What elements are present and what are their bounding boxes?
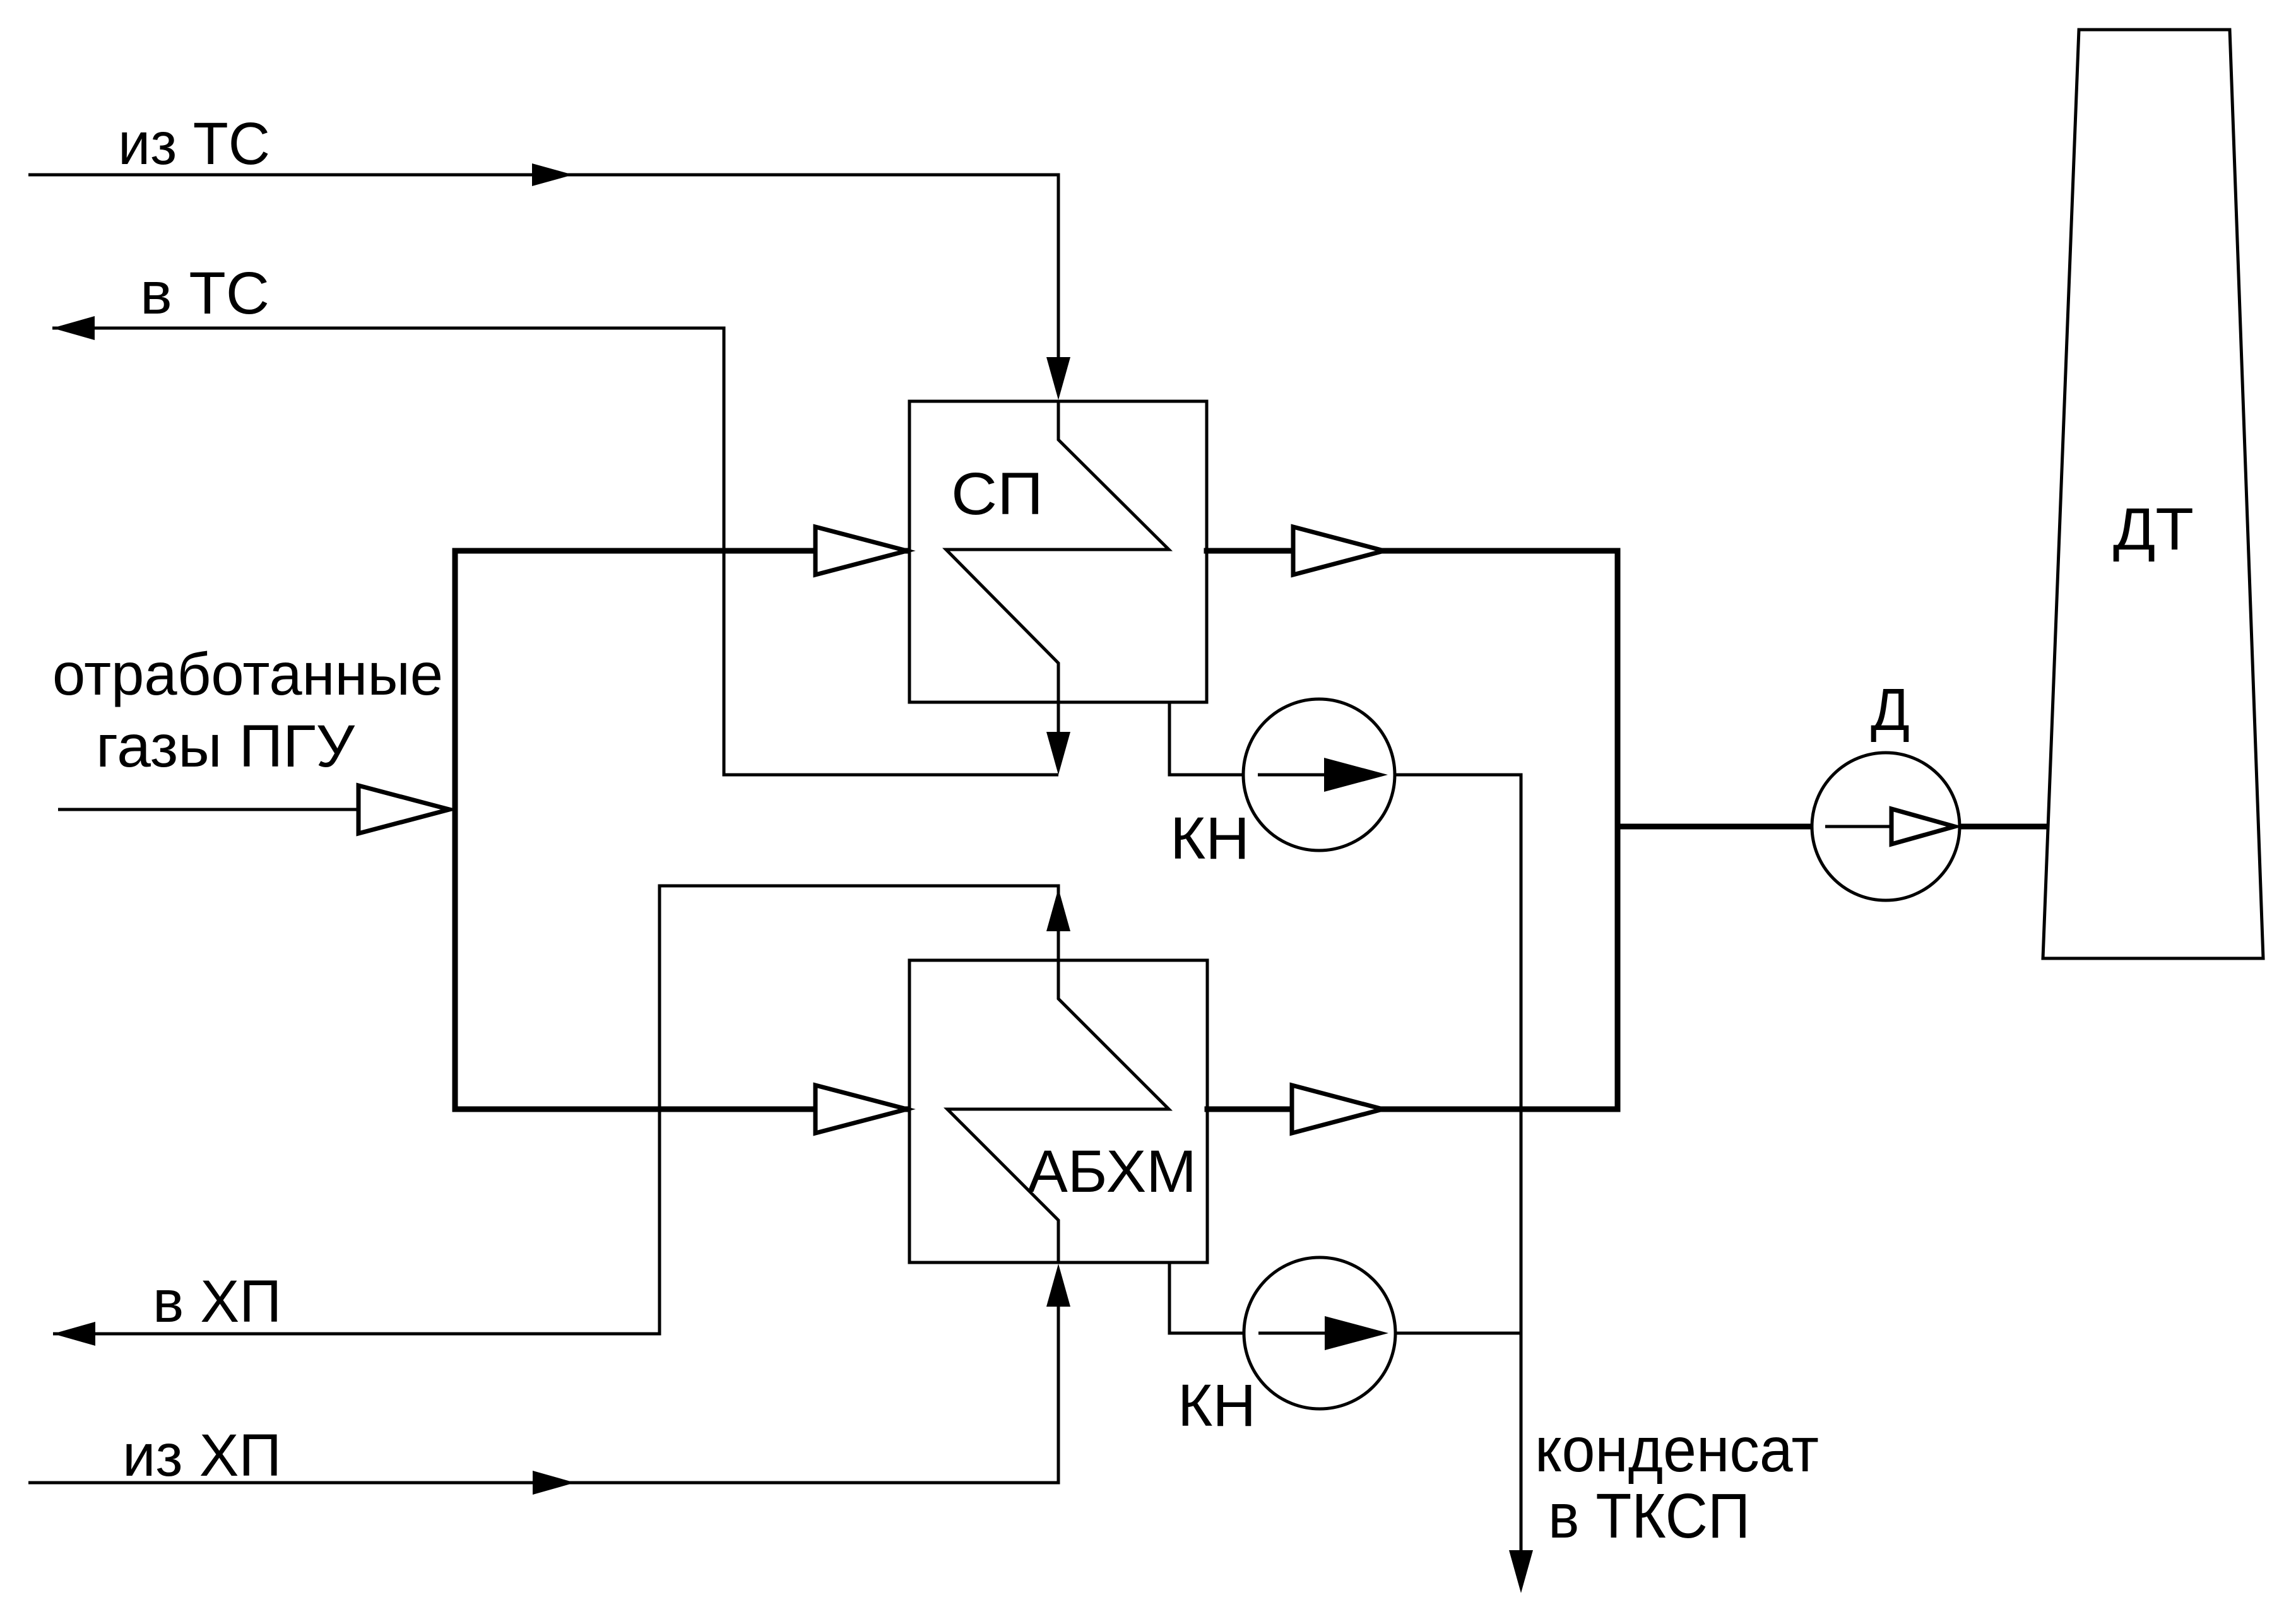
svg-text:газы ПГУ: газы ПГУ [96,713,355,780]
arrow: в ТС left [52,316,95,340]
block: СП heat exchanger box [909,401,1207,702]
wire: thick АБХМ outlet to collector [1207,1107,1618,1112]
svg-text:в ТКСП: в ТКСП [1548,1481,1750,1551]
wire: СП condensate drain to upper pump [1169,702,1243,775]
block: АБХМ absorption chiller box [909,960,1207,1262]
wire: thick gas manifold (vertical with two branches) [455,551,907,1109]
wire: chilled water to consumers (в ХП) from АБХМ top [53,886,1058,1334]
wire: line inside Д [1825,825,1891,828]
svg-text:из ХП: из ХП [122,1422,281,1489]
wire: thick line collector to Д fan [1618,824,1811,830]
arrow: flow direction on из ТС line [532,163,573,186]
wire: supply from heat network (из ТС) top line turning down into СП [28,175,1058,379]
svg-text:Д: Д [1871,676,1910,743]
svg-text:конденсат: конденсат [1535,1415,1819,1485]
svg-text:КН: КН [1170,805,1250,872]
wire: АБХМ condensate drain to lower pump [1169,1262,1244,1333]
arrow: solid inside lower pump [1325,1316,1388,1350]
svg-text:ДТ: ДТ [2113,496,2194,563]
wire: upper pump outlet and condensate downcomer [1395,775,1521,1550]
symbol: СП zigzag coil [946,401,1169,702]
svg-text:отработанные: отработанные [52,641,443,708]
arrow: hollow into АБХМ left [815,1085,907,1133]
arrow: condensate down to ТКСП [1509,1550,1533,1593]
wire: line inside upper pump [1258,774,1324,777]
arrow: up into АБХМ bottom [1046,1264,1070,1307]
pump КН upper circle [1243,699,1395,850]
svg-text:АБХМ: АБХМ [1027,1138,1197,1205]
wire: lower pump outlet [1395,1332,1521,1335]
svg-text:СП: СП [951,461,1043,527]
svg-text:в ТС: в ТС [140,260,269,327]
wire: СП drain down to corner [1057,702,1060,751]
fan Д circle [1812,753,1960,900]
arrow: down at corner below СП [1046,732,1070,775]
arrow: hollow on АБХМ outlet [1292,1085,1383,1133]
svg-text:из ТС: из ТС [118,110,270,177]
arrow: hollow inside Д [1891,809,1955,844]
arrow: up from АБХМ top [1046,888,1070,931]
wire: thick СП outlet to collector [1207,548,1618,554]
arrow: hollow on СП outlet [1293,527,1384,575]
chimney ДТ trapezoid [2043,30,2263,958]
symbol: АБХМ zigzag coil [947,960,1169,1262]
arrow: hollow into gas manifold [358,786,449,833]
wire: chilled water return (из ХП) into АБХМ bottom [28,1306,1058,1483]
arrow: solid inside upper pump [1324,758,1388,792]
wire: exhaust gas inlet line [58,808,358,811]
arrow: в ХП left [53,1322,95,1346]
wire: return to heat network (в ТС) [52,328,1058,775]
wire: line inside lower pump [1258,1332,1325,1335]
svg-text:в ХП: в ХП [153,1268,281,1335]
arrow: down into СП top [1046,357,1070,400]
wire: thick collector vertical [1615,551,1621,1109]
svg-text:КН: КН [1178,1372,1256,1439]
arrow: hollow into СП left [815,527,907,575]
wire: thick Д to chimney [1960,824,2049,830]
arrow: flow direction on из ХП line [533,1471,575,1495]
pump КН lower circle [1244,1257,1395,1409]
